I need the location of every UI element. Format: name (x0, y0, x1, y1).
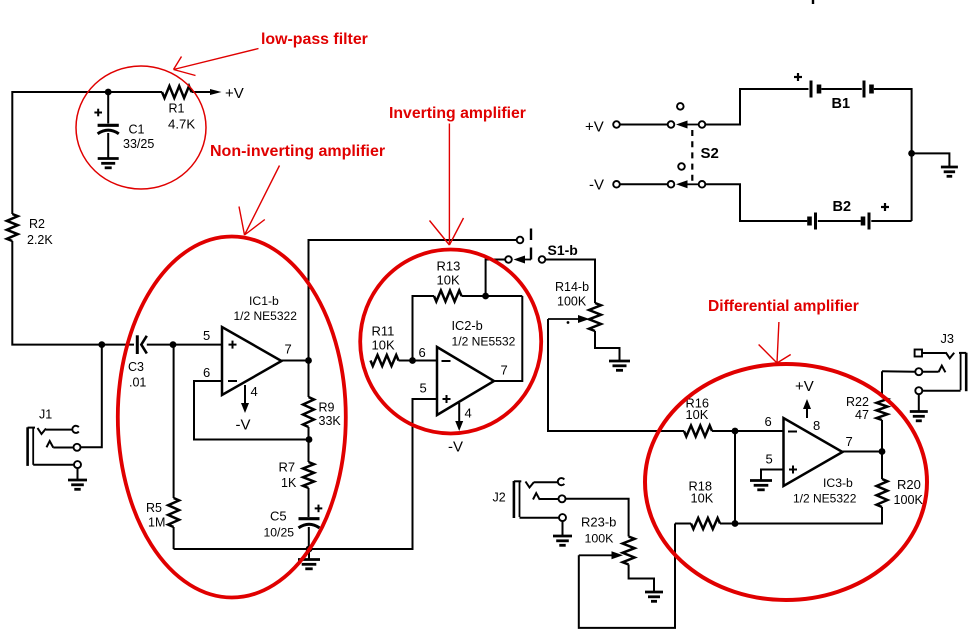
net +V supply (585, 119, 620, 136)
svg-text:1K: 1K (281, 476, 297, 490)
resistor R1 (162, 86, 195, 132)
annotation arrow non-inverting (239, 166, 280, 236)
svg-text:+V: +V (795, 378, 814, 395)
svg-text:R11: R11 (372, 324, 395, 339)
svg-text:33K: 33K (319, 414, 342, 428)
ground R14-b (609, 361, 630, 370)
svg-text:R22: R22 (846, 395, 869, 409)
net -V supply (589, 177, 620, 194)
switch S1-b (505, 229, 578, 264)
svg-text:Inverting amplifier: Inverting amplifier (389, 105, 526, 122)
svg-text:1M: 1M (148, 516, 165, 530)
resistor R20 (735, 452, 924, 524)
wire IC3 pin5 ground (761, 470, 784, 481)
annotation ellipse differential (645, 364, 927, 600)
node R13 junction (482, 293, 489, 300)
ground J1 (68, 480, 87, 489)
wire J2 to R23-b (566, 499, 629, 537)
ground supply (912, 153, 958, 176)
wire IC3 output (843, 451, 883, 453)
mark top edge (812, 0, 814, 4)
wire bottom rail (174, 399, 437, 549)
annotation arrow inverting (430, 124, 464, 246)
resistor R18 (675, 479, 735, 530)
svg-text:+V: +V (225, 85, 244, 102)
wire left-input (12, 241, 134, 345)
svg-text:R13: R13 (437, 259, 461, 274)
wire -V to S2 (620, 183, 668, 185)
annotation label inverting (389, 105, 526, 122)
svg-text:.01: .01 (129, 376, 146, 390)
svg-text:C1: C1 (129, 123, 145, 137)
annotation circle low-pass (76, 66, 206, 189)
wire R13 to S1-b (486, 260, 506, 297)
svg-text:5: 5 (203, 328, 210, 343)
svg-text:4: 4 (465, 406, 472, 421)
switch S2 top (668, 103, 706, 128)
svg-text:Differential amplifier: Differential amplifier (708, 298, 859, 315)
node J1 junction (98, 341, 105, 348)
svg-text:R7: R7 (279, 460, 296, 475)
annotation label low-pass filter (261, 31, 368, 48)
svg-text:Non-inverting amplifier: Non-inverting amplifier (210, 143, 385, 160)
node input junction (170, 341, 177, 348)
svg-text:J1: J1 (39, 408, 52, 422)
svg-text:R14-b: R14-b (555, 280, 589, 294)
svg-text:J2: J2 (493, 491, 506, 505)
resistor R7 (279, 440, 315, 518)
svg-text:7: 7 (285, 342, 292, 357)
svg-text:10K: 10K (691, 491, 714, 506)
wire IC1 output (282, 240, 517, 361)
svg-text:R2: R2 (29, 217, 45, 231)
svg-text:10/25: 10/25 (264, 526, 295, 540)
svg-text:C5: C5 (270, 509, 287, 524)
svg-text:6: 6 (203, 365, 210, 380)
svg-text:10K: 10K (437, 273, 460, 288)
wire IC1 feedback pin6 (194, 381, 309, 440)
resistor R5 (146, 345, 179, 549)
resistor R11 (371, 324, 438, 367)
svg-text:1/2 NE5322: 1/2 NE5322 (234, 309, 298, 323)
node R16 junction (732, 428, 739, 435)
node R18 junction (732, 520, 739, 527)
op-amp IC1-b (222, 294, 297, 395)
pin numbers IC2-b (419, 345, 508, 421)
svg-text:R5: R5 (146, 501, 162, 515)
svg-text:+V: +V (585, 119, 604, 136)
switch S2 bottom (668, 163, 706, 188)
svg-text:-V: -V (448, 439, 463, 456)
ground R23-b (645, 592, 663, 601)
wire IC2 output (494, 296, 522, 381)
svg-text:J3: J3 (941, 331, 955, 346)
pin numbers IC1-b (203, 328, 292, 399)
wire IC2 pin4 -V (448, 403, 463, 456)
potentiometer R23-b (579, 515, 635, 565)
svg-text:100K: 100K (585, 532, 615, 546)
svg-text:7: 7 (846, 434, 853, 449)
capacitor C1 (94, 92, 154, 158)
annotation label non-inverting (210, 143, 385, 160)
annotation label differential (708, 298, 859, 315)
ground J3 (910, 412, 928, 421)
wire diff inputs link (734, 431, 736, 524)
node IC1 output junction (305, 357, 312, 364)
node IC2 pin6 junction (409, 357, 416, 364)
annotation circle inverting (360, 250, 541, 434)
svg-text:5: 5 (766, 452, 773, 467)
svg-text:S1-b: S1-b (548, 242, 578, 258)
jack J2 (493, 478, 567, 535)
svg-text:C3: C3 (128, 360, 144, 374)
wire S2 to B1 (705, 89, 808, 125)
svg-text:6: 6 (419, 345, 426, 360)
wire IC1 pin4 -V (236, 385, 251, 434)
svg-text:4.7K: 4.7K (168, 117, 195, 132)
ground IC3 pin5 (750, 481, 772, 490)
svg-text:R20: R20 (897, 477, 921, 492)
resistor R13 (413, 259, 523, 361)
svg-text:R9: R9 (319, 401, 335, 415)
svg-text:1/2 NE5322: 1/2 NE5322 (793, 492, 857, 506)
wire R23-b wiper rail (579, 524, 675, 628)
op-amp IC2-b (437, 318, 516, 415)
switch S2 link (692, 130, 719, 182)
svg-text:R1: R1 (169, 102, 185, 116)
resistor R2 (7, 214, 54, 247)
annotation arrow low-pass (174, 49, 259, 76)
wire +V arrow (192, 89, 222, 95)
svg-text:IC3-b: IC3-b (823, 476, 853, 490)
capacitor C3 (128, 335, 147, 389)
node supply mid (908, 150, 915, 157)
svg-text:-V: -V (236, 417, 251, 434)
wire B1 to gnd node (874, 89, 912, 221)
svg-text:IC2-b: IC2-b (452, 318, 483, 333)
resistor R16 (684, 396, 784, 437)
pin numbers IC3-b (765, 414, 853, 467)
wire R14-b wiper to R16 (548, 319, 684, 431)
battery B1 (794, 73, 872, 112)
svg-text:6: 6 (765, 414, 772, 429)
node C5 bottom junction (306, 546, 313, 553)
wire S1-b to R14-b (545, 260, 595, 304)
node R9/R7 junction (306, 436, 313, 443)
wire R22 to J3 (882, 370, 915, 372)
svg-text:IC1-b: IC1-b (249, 294, 279, 308)
svg-text:33/25: 33/25 (123, 137, 154, 151)
ground C1 (98, 159, 119, 168)
svg-text:4: 4 (251, 384, 258, 399)
svg-text:-V: -V (589, 177, 604, 194)
resistor R9 (303, 361, 341, 440)
wire +V to S2 (620, 124, 668, 126)
svg-text:R23-b: R23-b (581, 515, 616, 530)
svg-text:1/2 NE5532: 1/2 NE5532 (452, 335, 516, 349)
battery B2 (810, 199, 912, 230)
node IC3 output junction (879, 448, 886, 455)
svg-text:7: 7 (501, 363, 508, 378)
potentiometer R14-b (548, 280, 601, 331)
svg-text:100K: 100K (557, 295, 587, 309)
jack J3 (915, 331, 967, 411)
svg-text:low-pass filter: low-pass filter (261, 31, 368, 48)
wire IC3 pin8 +V (795, 378, 814, 418)
svg-text:B1: B1 (832, 96, 851, 112)
net +V (225, 85, 244, 102)
svg-text:100K: 100K (894, 493, 924, 507)
wire S2 to B2 (705, 184, 807, 221)
op-amp IC3-b (784, 418, 857, 506)
wire R14-b bottom (595, 331, 620, 361)
wire input node (147, 344, 222, 346)
svg-text:8: 8 (813, 418, 820, 433)
annotation ellipse non-inverting (118, 237, 346, 598)
jack J1 (28, 408, 81, 480)
wire J1 to input (81, 345, 102, 448)
svg-text:10K: 10K (372, 338, 395, 353)
svg-text:5: 5 (420, 381, 427, 396)
wire R23-b bottom (629, 565, 654, 592)
resistor R22 (846, 371, 888, 451)
node junction C1/R1 (105, 89, 112, 96)
svg-text:B2: B2 (833, 199, 852, 215)
svg-text:47: 47 (855, 408, 869, 422)
wire (12, 92, 162, 214)
svg-text:S2: S2 (701, 145, 719, 162)
annotation arrow differential (759, 322, 791, 363)
svg-text:10K: 10K (686, 407, 709, 422)
ground J2 (553, 536, 572, 545)
svg-text:2.2K: 2.2K (27, 233, 53, 247)
ground C5 (298, 549, 320, 569)
capacitor C5 (264, 505, 323, 549)
